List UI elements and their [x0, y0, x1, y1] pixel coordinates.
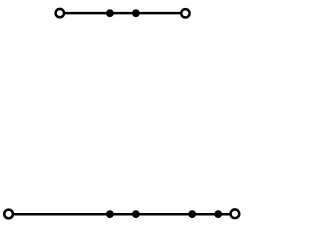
junction dot upper 2 — [132, 9, 140, 17]
wire upper potential rail — [60, 12, 185, 15]
junction dot lower 3 — [188, 210, 196, 218]
wire lower potential rail — [8, 213, 235, 216]
terminal upper left (open circle) — [56, 9, 64, 17]
terminal upper right (open circle) — [181, 9, 189, 17]
junction dot lower 4 — [214, 210, 222, 218]
terminal lower right (open circle) — [231, 209, 240, 218]
junction dot upper 1 — [106, 9, 114, 17]
junction dot lower 1 — [106, 210, 114, 218]
junction dot lower 2 — [132, 210, 140, 218]
terminal lower left (open circle) — [4, 210, 13, 219]
